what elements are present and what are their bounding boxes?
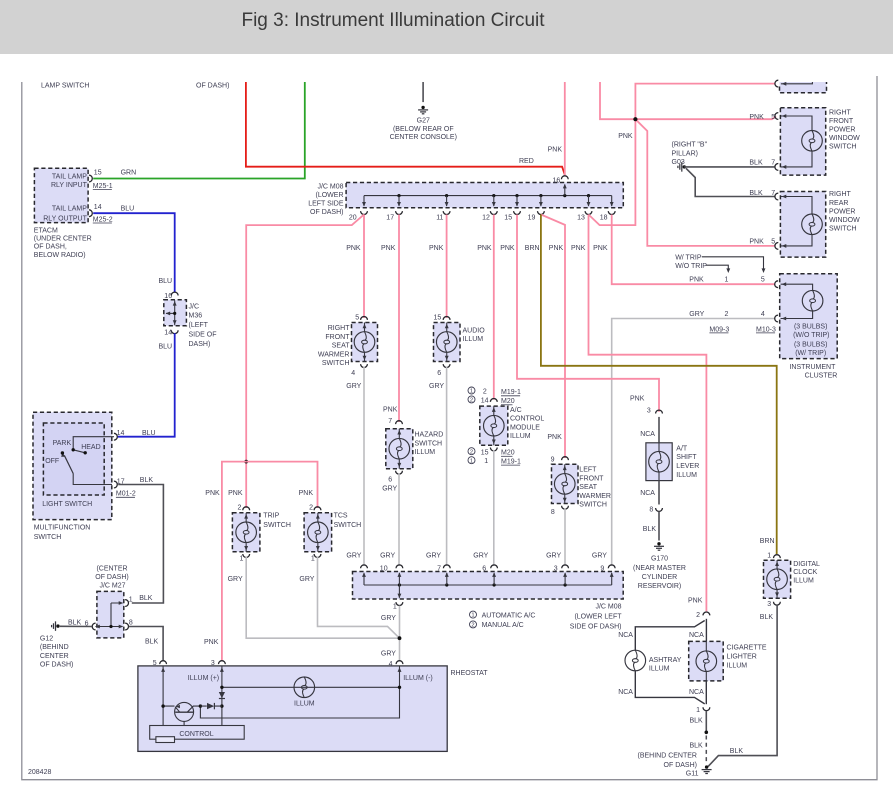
- ETACM pin 15 connector M25-1: [89, 175, 92, 182]
- ground G27: [422, 82, 424, 102]
- legend automatic/manual a/c: [470, 611, 477, 618]
- svg-text:POWER: POWER: [829, 208, 855, 215]
- rheostat diode D1: [219, 692, 225, 698]
- svg-text:RLY OUTPUT: RLY OUTPUT: [43, 215, 87, 222]
- svg-text:PARK: PARK: [53, 440, 72, 447]
- wire GRN ETACM pin 15 to top: [93, 82, 305, 179]
- svg-text:PNK: PNK: [477, 245, 492, 252]
- svg-text:WARMER: WARMER: [579, 493, 611, 500]
- svg-text:(W/O TRIP): (W/O TRIP): [793, 332, 829, 339]
- svg-text:5: 5: [761, 277, 765, 284]
- svg-text:BRN: BRN: [760, 538, 775, 545]
- svg-text:14: 14: [481, 398, 489, 405]
- a/c control module illum: [468, 387, 475, 394]
- svg-text:(RIGHT "B": (RIGHT "B": [672, 142, 708, 149]
- svg-text:PNK: PNK: [630, 396, 645, 403]
- svg-text:(CENTER: (CENTER: [96, 565, 127, 572]
- svg-text:BLK: BLK: [749, 160, 763, 167]
- wire PNK pin 13 branch to cigarette lighter illum: [589, 215, 707, 612]
- svg-text:OFF: OFF: [45, 458, 59, 465]
- svg-text:GRY: GRY: [381, 650, 396, 657]
- svg-text:G11: G11: [686, 770, 699, 777]
- svg-text:POWER: POWER: [829, 127, 855, 134]
- svg-text:CLOCK: CLOCK: [793, 569, 817, 576]
- svg-text:2: 2: [237, 504, 241, 511]
- svg-text:M25-1: M25-1: [93, 183, 113, 190]
- right front power window switch: [780, 108, 825, 175]
- title bar: [0, 0, 893, 54]
- svg-text:(NEAR MASTER: (NEAR MASTER: [633, 565, 686, 572]
- svg-text:4: 4: [761, 311, 765, 318]
- svg-text:J/C M08: J/C M08: [317, 183, 343, 190]
- svg-text:BLK: BLK: [690, 718, 704, 725]
- svg-text:(BELOW REAR OF: (BELOW REAR OF: [393, 126, 454, 133]
- svg-text:GRY: GRY: [381, 615, 396, 622]
- node trip/tcs junction: [244, 460, 248, 464]
- svg-text:BLK: BLK: [749, 190, 763, 197]
- svg-text:6: 6: [437, 370, 441, 377]
- svg-text:NCA: NCA: [689, 632, 704, 639]
- svg-text:OF DASH,: OF DASH,: [34, 244, 67, 251]
- svg-text:RIGHT: RIGHT: [829, 191, 852, 198]
- svg-text:TAIL LAMP: TAIL LAMP: [52, 206, 87, 213]
- svg-text:ILLUM: ILLUM: [727, 662, 748, 669]
- instrument cluster box: [780, 274, 838, 359]
- svg-text:18: 18: [600, 215, 608, 222]
- svg-text:7: 7: [437, 565, 441, 572]
- svg-text:G170: G170: [651, 556, 668, 563]
- svg-text:SWITCH: SWITCH: [829, 144, 857, 151]
- svg-text:1: 1: [725, 277, 729, 284]
- svg-text:ILLUM: ILLUM: [415, 449, 436, 456]
- ETACM module box: [34, 168, 88, 222]
- right rear power window switch: [780, 192, 825, 258]
- svg-text:GRY: GRY: [592, 553, 607, 560]
- ashtray illum branch top: [635, 621, 704, 651]
- svg-text:RLY INPUT: RLY INPUT: [51, 182, 88, 189]
- svg-text:1: 1: [471, 613, 474, 619]
- svg-text:BLK: BLK: [145, 639, 159, 646]
- svg-text:6: 6: [388, 476, 392, 483]
- svg-text:BLK: BLK: [730, 748, 744, 755]
- svg-text:WINDOW: WINDOW: [829, 135, 860, 142]
- wire PNK pin 15 to a/t shift lever illum: [517, 215, 659, 412]
- svg-text:19: 19: [528, 215, 536, 222]
- wire PNK junction to right rear power window switch pin 5: [635, 119, 774, 246]
- svg-text:SEAT: SEAT: [332, 343, 350, 350]
- svg-text:1: 1: [311, 555, 315, 562]
- svg-text:ILLUM (+): ILLUM (+): [188, 675, 219, 682]
- svg-text:PNK: PNK: [688, 597, 703, 604]
- svg-text:M19-1: M19-1: [501, 389, 521, 396]
- svg-text:2: 2: [483, 389, 487, 396]
- svg-text:(LOWER LEFT: (LOWER LEFT: [574, 614, 622, 621]
- svg-text:CONTROL: CONTROL: [179, 731, 213, 738]
- svg-text:ILLUM (-): ILLUM (-): [403, 675, 433, 682]
- svg-text:LIGHT SWITCH: LIGHT SWITCH: [42, 501, 92, 508]
- wire GRY audio illum to lower J/C M08: [446, 367, 448, 567]
- svg-text:WARMER: WARMER: [318, 351, 350, 358]
- svg-text:(LOWER: (LOWER: [316, 192, 344, 199]
- svg-text:DIGITAL: DIGITAL: [793, 561, 820, 568]
- svg-text:GRY: GRY: [426, 553, 441, 560]
- svg-text:CENTER: CENTER: [40, 653, 69, 660]
- wire GRY right front seat warmer to lower J/C M08: [363, 367, 365, 567]
- svg-text:HAZARD: HAZARD: [415, 432, 444, 439]
- svg-text:8: 8: [649, 506, 653, 513]
- svg-text:15: 15: [481, 450, 489, 457]
- ground G11: [705, 765, 708, 768]
- svg-text:BLK: BLK: [140, 477, 154, 484]
- svg-text:PNK: PNK: [548, 147, 563, 154]
- svg-text:(UNDER CENTER: (UNDER CENTER: [34, 236, 92, 243]
- wire PNK pin 12 to a/c control module illum: [493, 215, 495, 400]
- svg-text:GRY: GRY: [299, 576, 314, 583]
- svg-text:MODULE: MODULE: [510, 424, 540, 431]
- wire PNK pin 18 to instrument cluster: [612, 215, 775, 285]
- svg-text:PNK: PNK: [228, 490, 243, 497]
- rheostat resistor: [156, 737, 175, 743]
- svg-text:PNK: PNK: [593, 245, 608, 252]
- svg-text:16: 16: [553, 177, 561, 184]
- svg-text:8: 8: [129, 619, 133, 626]
- wire GRY instrument cluster to lower J/C M08 pin 9: [612, 319, 775, 567]
- wire GRY a/c module to lower J/C M08: [493, 450, 495, 566]
- svg-text:REAR: REAR: [829, 200, 848, 207]
- svg-text:SWITCH: SWITCH: [415, 440, 443, 447]
- svg-text:GRY: GRY: [429, 383, 444, 390]
- node window switch feed junction: [633, 117, 637, 121]
- svg-text:CONTROL: CONTROL: [510, 416, 544, 423]
- svg-text:NCA: NCA: [618, 689, 633, 696]
- svg-text:BLU: BLU: [142, 430, 156, 437]
- wire BLK J/C M27 pin 8 to rheostat pin 5: [129, 627, 163, 661]
- svg-text:M25-2: M25-2: [93, 216, 113, 223]
- svg-text:1: 1: [470, 458, 473, 464]
- light switch pin 17 connector M01-2: [114, 481, 117, 488]
- svg-text:2: 2: [696, 612, 700, 619]
- svg-text:5: 5: [153, 660, 157, 667]
- wire PNK pin 17 to hazard switch illum: [398, 215, 400, 423]
- svg-text:HEAD: HEAD: [81, 444, 100, 451]
- svg-text:ILLUM: ILLUM: [463, 336, 484, 343]
- svg-text:ILLUM: ILLUM: [676, 472, 697, 479]
- multifunction switch outer box: [33, 412, 112, 519]
- svg-text:7: 7: [388, 418, 392, 425]
- svg-text:Fig 3: Instrument Illumination: Fig 3: Instrument Illumination Circuit: [241, 10, 545, 31]
- svg-text:M09-3: M09-3: [709, 326, 729, 333]
- wire PNK from top to J/C M08 pin 16: [564, 82, 566, 175]
- wire GRY hazard switch to lower J/C M08: [398, 473, 400, 566]
- J/C M08 pin 16 (top): [564, 185, 566, 196]
- svg-text:PNK: PNK: [689, 277, 704, 284]
- svg-text:PNK: PNK: [383, 406, 398, 413]
- svg-text:3: 3: [647, 408, 651, 415]
- cut-off switch box (top right): [780, 82, 827, 93]
- svg-text:4: 4: [389, 661, 393, 668]
- svg-text:PNK: PNK: [749, 114, 764, 121]
- svg-text:J/C M08: J/C M08: [595, 604, 621, 611]
- svg-text:NCA: NCA: [618, 632, 633, 639]
- J/C M08 bottom pins 20 17 11 12 15 19 13 18: [363, 196, 365, 206]
- svg-text:OF DASH): OF DASH): [196, 83, 229, 90]
- svg-text:M19-1: M19-1: [501, 459, 521, 466]
- svg-text:OF DASH): OF DASH): [95, 574, 128, 581]
- svg-text:LEFT: LEFT: [579, 467, 597, 474]
- wire BLK light switch to J/C M27 pin 1: [118, 485, 163, 604]
- svg-text:RIGHT: RIGHT: [829, 109, 852, 116]
- svg-text:M36: M36: [189, 313, 203, 320]
- svg-text:8: 8: [551, 509, 555, 516]
- svg-text:PNK: PNK: [205, 490, 220, 497]
- svg-text:15: 15: [434, 315, 442, 322]
- svg-text:ILLUM: ILLUM: [793, 578, 814, 585]
- svg-text:GRY: GRY: [346, 383, 361, 390]
- svg-text:7: 7: [771, 190, 775, 197]
- J/C M08 lower pin 1 (bottom): [398, 585, 400, 598]
- J/C M08 lower top pins 10 7 6 3 9: [363, 573, 365, 585]
- svg-text:CLUSTER: CLUSTER: [805, 373, 838, 380]
- rheostat pin 4: [396, 661, 403, 664]
- svg-text:14: 14: [164, 329, 172, 336]
- svg-text:GRY: GRY: [689, 311, 704, 318]
- wire PNK branch to rheostat pin 3: [222, 462, 246, 661]
- svg-text:SWITCH: SWITCH: [829, 226, 857, 233]
- wire PNK junction to top edge: [600, 82, 635, 119]
- svg-text:GRY: GRY: [473, 553, 488, 560]
- svg-text:A/C: A/C: [510, 407, 522, 414]
- svg-text:J/C: J/C: [189, 303, 200, 310]
- svg-text:4: 4: [351, 370, 355, 377]
- svg-text:GRY: GRY: [546, 553, 561, 560]
- wire BLK cigarette lighter to ground G11: [705, 711, 707, 731]
- wire BLK G03 to right front power window switch pin 7: [684, 166, 774, 168]
- svg-text:BLK: BLK: [760, 614, 774, 621]
- svg-text:(3 BULBS): (3 BULBS): [794, 323, 827, 330]
- wire PNK junction to right front power window switch pin 5: [635, 116, 776, 119]
- svg-text:PNK: PNK: [429, 245, 444, 252]
- svg-text:FRONT: FRONT: [579, 475, 604, 482]
- svg-text:PNK: PNK: [749, 238, 764, 245]
- svg-text:PNK: PNK: [204, 639, 219, 646]
- svg-text:INSTRUMENT: INSTRUMENT: [789, 364, 836, 371]
- wire BLK J/C M27 pin 6 to ground G12: [60, 625, 92, 627]
- svg-text:CENTER CONSOLE): CENTER CONSOLE): [390, 134, 457, 141]
- wire GRY lower J/C M08 pin 1 to rheostat pin 4: [399, 606, 401, 661]
- svg-text:(BEHIND CENTER: (BEHIND CENTER: [637, 752, 697, 759]
- rheostat transistor Q1: [175, 702, 194, 721]
- svg-text:NCA: NCA: [640, 490, 655, 497]
- svg-text:G03: G03: [672, 159, 685, 166]
- svg-text:RED: RED: [519, 158, 534, 165]
- svg-text:RESERVOIR): RESERVOIR): [638, 583, 681, 590]
- svg-text:SWITCH: SWITCH: [579, 502, 607, 509]
- wire PNK pin 20 to right front seat warmer switch: [363, 215, 365, 319]
- svg-text:BLK: BLK: [643, 526, 657, 533]
- rheostat pin 5: [160, 661, 167, 664]
- svg-text:G12: G12: [40, 636, 53, 643]
- wire BLU ETACM pin 14 to J/C M36: [93, 213, 175, 292]
- svg-text:GRY: GRY: [228, 576, 243, 583]
- svg-text:1: 1: [393, 603, 397, 610]
- svg-text:2: 2: [470, 449, 473, 455]
- J/C M08 internal bus: [364, 195, 612, 197]
- svg-text:SWITCH: SWITCH: [334, 522, 362, 529]
- svg-text:DASH): DASH): [189, 341, 211, 348]
- svg-text:OF DASH): OF DASH): [310, 209, 343, 216]
- svg-text:BRN: BRN: [525, 245, 540, 252]
- svg-text:2: 2: [309, 504, 313, 511]
- svg-text:BLU: BLU: [121, 206, 135, 213]
- ground G12: [56, 624, 59, 627]
- svg-text:7: 7: [771, 160, 775, 167]
- svg-text:GRY: GRY: [382, 486, 397, 493]
- svg-text:LEFT SIDE: LEFT SIDE: [308, 200, 344, 207]
- svg-text:1: 1: [696, 707, 700, 714]
- ground G170: [657, 542, 660, 545]
- svg-text:ETACM: ETACM: [34, 227, 58, 234]
- junction connector J/C M08 lower box: [353, 572, 624, 600]
- svg-text:SWITCH: SWITCH: [34, 534, 62, 541]
- svg-text:(BEHIND: (BEHIND: [40, 644, 69, 651]
- svg-text:15: 15: [94, 169, 102, 176]
- svg-text:FRONT: FRONT: [829, 118, 854, 125]
- svg-text:OF DASH): OF DASH): [664, 762, 697, 769]
- svg-text:AUTOMATIC A/C: AUTOMATIC A/C: [482, 612, 536, 619]
- svg-text:1: 1: [239, 555, 243, 562]
- svg-text:NCA: NCA: [640, 431, 655, 438]
- ETACM pin 14 connector M25-2: [89, 210, 92, 217]
- svg-text:PNK: PNK: [299, 490, 314, 497]
- svg-text:BLU: BLU: [159, 278, 173, 285]
- svg-text:11: 11: [436, 215, 443, 222]
- rheostat box: [138, 666, 447, 752]
- rheostat lamp ILLUM: [222, 686, 400, 688]
- wire RED from top to J/C M08 pin 16: [246, 82, 565, 175]
- svg-text:PNK: PNK: [346, 245, 361, 252]
- wire PNK pin 13 to power window switches: [589, 119, 636, 225]
- svg-text:(LEFT: (LEFT: [189, 322, 209, 329]
- svg-text:208428: 208428: [28, 769, 51, 776]
- wire PNK branch to TCS switch: [246, 462, 317, 508]
- svg-text:LAMP SWITCH: LAMP SWITCH: [41, 82, 90, 89]
- svg-text:ILLUM: ILLUM: [649, 665, 670, 672]
- light switch pin 14: [114, 433, 117, 440]
- rheostat internal wiring: [163, 667, 399, 726]
- wire GRY tcs switch to rheostat return: [318, 556, 400, 638]
- wire GRY left front seat warmer to lower J/C M08: [564, 508, 566, 566]
- wire PNK pin 20 branch to trip/tcs and rheostat: [246, 215, 364, 509]
- svg-text:BLU: BLU: [159, 343, 173, 350]
- svg-text:W/ TRIP: W/ TRIP: [675, 255, 702, 262]
- svg-text:ILLUM: ILLUM: [510, 433, 531, 440]
- cigarette lighter pin 1: [705, 681, 707, 704]
- svg-text:SEAT: SEAT: [579, 484, 597, 491]
- svg-text:RIGHT: RIGHT: [328, 325, 351, 332]
- rheostat diode D2: [200, 705, 222, 707]
- svg-text:TCS: TCS: [334, 513, 348, 520]
- svg-text:3: 3: [211, 660, 215, 667]
- svg-text:BLK: BLK: [139, 595, 153, 602]
- rheostat pin 3: [218, 661, 225, 664]
- svg-text:CYLINDER: CYLINDER: [642, 574, 677, 581]
- svg-text:RHEOSTAT: RHEOSTAT: [451, 670, 489, 677]
- svg-text:BLK: BLK: [68, 620, 82, 627]
- cigarette lighter illum box: [689, 641, 724, 681]
- svg-text:AUDIO: AUDIO: [463, 327, 486, 334]
- svg-text:PNK: PNK: [618, 133, 633, 140]
- svg-text:G27: G27: [417, 117, 430, 124]
- svg-text:PNK: PNK: [547, 434, 562, 441]
- svg-text:SIDE OF: SIDE OF: [189, 332, 217, 339]
- svg-text:2: 2: [471, 623, 474, 629]
- svg-text:TRIP: TRIP: [263, 513, 279, 520]
- svg-text:SIDE OF DASH): SIDE OF DASH): [570, 624, 622, 631]
- ashtray illum branch bottom: [635, 671, 704, 704]
- svg-text:BLK: BLK: [690, 743, 704, 750]
- svg-text:ASHTRAY: ASHTRAY: [649, 657, 682, 664]
- svg-text:5: 5: [771, 114, 775, 121]
- svg-text:1: 1: [767, 552, 771, 559]
- svg-text:14: 14: [94, 204, 102, 211]
- svg-text:1: 1: [484, 458, 488, 465]
- svg-text:M20: M20: [501, 450, 515, 457]
- svg-text:LEVER: LEVER: [676, 463, 699, 470]
- svg-text:MULTIFUNCTION: MULTIFUNCTION: [34, 525, 91, 532]
- svg-text:PNK: PNK: [549, 245, 564, 252]
- svg-text:2: 2: [470, 398, 473, 404]
- wire BLU J/C M36 to light switch pin 14: [118, 333, 175, 437]
- svg-text:(3 BULBS): (3 BULBS): [794, 341, 827, 348]
- svg-text:SWITCH: SWITCH: [322, 360, 350, 367]
- svg-text:A/T: A/T: [676, 445, 688, 452]
- wire BLK digital clock to ground G11: [708, 605, 777, 767]
- svg-text:PILLAR): PILLAR): [672, 150, 698, 157]
- svg-text:17: 17: [386, 215, 394, 222]
- rheostat control block: [150, 726, 245, 740]
- svg-text:W/O TRIP: W/O TRIP: [675, 263, 707, 270]
- svg-text:ILLUM: ILLUM: [294, 701, 315, 708]
- svg-text:(W/ TRIP): (W/ TRIP): [795, 350, 826, 357]
- svg-text:3: 3: [554, 565, 558, 572]
- svg-text:1: 1: [470, 389, 473, 395]
- wire BRN pin 19 to digital clock illum: [541, 215, 777, 555]
- light switch contacts and lever: [73, 437, 114, 485]
- wire to cigarette lighter lamp: [705, 619, 707, 642]
- wire PNK pin 11 to audio illum: [446, 215, 448, 319]
- svg-text:13: 13: [577, 215, 585, 222]
- light switch inner box: [43, 423, 104, 495]
- svg-text:GRY: GRY: [346, 553, 361, 560]
- svg-text:WINDOW: WINDOW: [829, 217, 860, 224]
- svg-text:12: 12: [482, 215, 490, 222]
- svg-text:9: 9: [551, 456, 555, 463]
- svg-text:15: 15: [504, 215, 512, 222]
- wire PNK junction up to cut-off switch at top right: [635, 84, 774, 120]
- svg-text:J/C M27: J/C M27: [99, 582, 125, 589]
- svg-text:9: 9: [600, 565, 604, 572]
- svg-text:CIGARETTE: CIGARETTE: [727, 645, 767, 652]
- svg-text:SHIFT: SHIFT: [676, 454, 697, 461]
- svg-text:5: 5: [771, 238, 775, 245]
- svg-text:PNK: PNK: [500, 245, 515, 252]
- wire PNK pin 19 to left front seat warmer switch: [541, 215, 565, 459]
- svg-text:3: 3: [767, 601, 771, 608]
- svg-text:OF DASH): OF DASH): [40, 661, 73, 668]
- svg-text:PNK: PNK: [381, 245, 396, 252]
- svg-text:NCA: NCA: [689, 689, 704, 696]
- ashtray illum lamp: [625, 650, 646, 671]
